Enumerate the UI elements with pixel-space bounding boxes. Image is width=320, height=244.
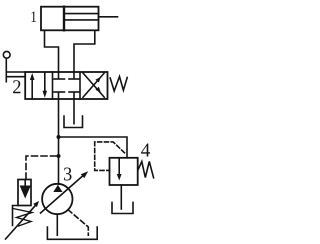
cylinder 1 piston <box>63 7 65 31</box>
valve 2 divider left/centre <box>52 72 54 99</box>
valve 2 left position up arrow <box>31 79 33 99</box>
label 3 <box>64 167 72 180</box>
valve 2 right position crossed arrow down <box>83 73 104 97</box>
valve 2 right position crossed arrow up <box>83 73 104 97</box>
compensator seat line <box>13 206 19 226</box>
compensator adjust arrow <box>6 205 37 239</box>
valve 2 lever stem <box>5 58 7 81</box>
node junction to relief valve 4 <box>57 135 61 139</box>
cylinder 1 rod lower line <box>64 19 99 21</box>
tank under relief valve 4 <box>112 202 133 213</box>
compensator spring <box>13 209 32 227</box>
valve 2 centre blocked port bottom P <box>58 93 60 99</box>
tank under pump <box>47 227 97 239</box>
wire valve T port to tank <box>73 99 75 124</box>
pump 3 variable arrow <box>41 175 85 213</box>
valve 2 centre blocked port top A <box>58 72 60 78</box>
pump 3 circle <box>42 184 72 214</box>
wire pump suction to tank <box>56 214 58 235</box>
wire cylinder left port to valve port A <box>45 30 59 72</box>
tank under valve 2 <box>64 116 83 128</box>
valve 2 spring <box>110 77 127 92</box>
relief valve 4 flow arrow <box>118 158 120 175</box>
valve 2 left position down arrow <box>44 73 46 92</box>
compensator internal arrow <box>24 180 26 188</box>
label 1 <box>32 11 36 22</box>
relief valve 4 pilot line dashed <box>95 142 125 171</box>
cylinder 1 rod extension <box>99 16 118 18</box>
wire branch to relief valve 4 <box>59 137 128 158</box>
compensator valve body <box>18 180 31 206</box>
valve 2 body <box>25 72 107 99</box>
label 4 <box>141 144 150 157</box>
wire main pressure line valve P to pump <box>58 99 60 184</box>
valve 2 lever roller circle <box>3 51 10 58</box>
pilot line to compensator dashed <box>26 156 57 180</box>
valve 2 divider centre/right <box>79 72 81 99</box>
label 2 <box>13 80 20 93</box>
valve 2 lever lower link <box>6 76 25 78</box>
wire relief valve 4 to tank <box>120 185 122 209</box>
valve 2 centre blocked port bottom T <box>73 93 75 99</box>
pump 3 outlet triangle <box>53 185 62 192</box>
valve 2 lever upper link <box>6 71 25 73</box>
wire cylinder right port to valve port B <box>74 30 95 72</box>
node junction to compensator pilot <box>57 154 61 158</box>
relief valve 4 spring <box>138 162 153 178</box>
cylinder 1 body <box>41 7 99 31</box>
relief valve 4 body <box>110 158 138 185</box>
valve 2 centre blocked port top B <box>73 72 75 78</box>
pump drain line dashed <box>68 210 88 236</box>
cylinder 1 rod upper line <box>64 13 99 15</box>
